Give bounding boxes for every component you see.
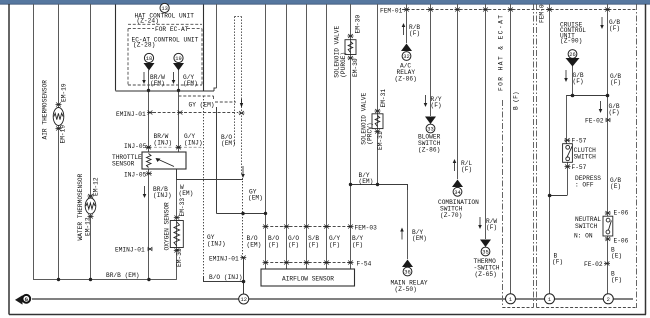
svg-text:18: 18 xyxy=(146,56,152,62)
svg-text:(F): (F) xyxy=(609,109,620,116)
svg-text:EM-12: EM-12 xyxy=(93,177,100,196)
svg-text:(Z-86): (Z-86) xyxy=(395,76,417,83)
svg-text:(Z-50): (Z-50) xyxy=(395,286,417,293)
svg-text:34: 34 xyxy=(454,190,460,196)
svg-text:AIR THERMOSENSOR: AIR THERMOSENSOR xyxy=(42,80,49,140)
svg-text:INJ-05: INJ-05 xyxy=(124,143,147,150)
svg-text:EMINJ-01: EMINJ-01 xyxy=(209,256,239,263)
svg-text:EM-31: EM-31 xyxy=(380,89,387,108)
svg-text:(EM): (EM) xyxy=(412,235,427,242)
svg-text:FE-02: FE-02 xyxy=(584,261,603,268)
svg-text:SENSOR: SENSOR xyxy=(112,161,135,168)
svg-text:(INJ): (INJ) xyxy=(184,140,203,147)
svg-text:FEM-0: FEM-0 xyxy=(539,4,546,23)
svg-text:EM-30: EM-30 xyxy=(352,58,359,77)
svg-text:33: 33 xyxy=(427,127,433,133)
svg-text:B/O (INJ): B/O (INJ) xyxy=(209,274,242,281)
svg-text:(E): (E) xyxy=(610,183,621,190)
svg-text:B (F): B (F) xyxy=(513,91,520,110)
svg-text:F-57: F-57 xyxy=(572,164,587,171)
svg-text:EMINJ-01: EMINJ-01 xyxy=(116,111,146,118)
svg-text:FEM-03: FEM-03 xyxy=(355,225,378,232)
svg-text:(INJ): (INJ) xyxy=(207,241,226,248)
svg-text:INJ-05: INJ-05 xyxy=(124,172,147,179)
svg-text:AIRFLOW SENSOR: AIRFLOW SENSOR xyxy=(282,275,334,282)
svg-text:F-57: F-57 xyxy=(572,137,587,144)
svg-text:N: ON: N: ON xyxy=(574,232,593,239)
svg-text:(F): (F) xyxy=(308,242,319,249)
svg-text:32: 32 xyxy=(403,54,409,60)
svg-text:(Z-70): (Z-70) xyxy=(440,212,462,219)
svg-text:FE-02: FE-02 xyxy=(585,118,604,125)
svg-text:(F): (F) xyxy=(552,259,563,266)
svg-text:(F): (F) xyxy=(609,25,620,32)
svg-text:(EM): (EM) xyxy=(179,190,194,197)
svg-text:(Z-65): (Z-65) xyxy=(475,271,497,278)
svg-text:(INJ): (INJ) xyxy=(154,140,173,147)
svg-text:EMINJ-01: EMINJ-01 xyxy=(115,247,145,254)
svg-text:(F): (F) xyxy=(288,242,299,249)
svg-text:(F): (F) xyxy=(611,277,622,284)
svg-text:FOR EC-AT: FOR EC-AT xyxy=(155,26,189,33)
svg-text:13: 13 xyxy=(161,6,167,12)
svg-text:1: 1 xyxy=(548,297,551,303)
svg-text:2: 2 xyxy=(607,297,610,303)
svg-text:(F): (F) xyxy=(486,224,497,231)
svg-text:(Z-28): (Z-28) xyxy=(133,42,155,49)
svg-text:EM-33: EM-33 xyxy=(179,198,186,217)
svg-text:EM-30: EM-30 xyxy=(355,15,362,34)
svg-text:12: 12 xyxy=(240,297,246,303)
svg-text:(F): (F) xyxy=(461,166,472,173)
svg-text:(EM): (EM) xyxy=(221,140,236,147)
svg-text:26: 26 xyxy=(569,52,575,58)
svg-text:SWITCH: SWITCH xyxy=(575,223,598,230)
svg-text:EM-12: EM-12 xyxy=(85,217,92,236)
svg-text:(F): (F) xyxy=(573,78,584,85)
svg-text:(PRCV): (PRCV) xyxy=(367,122,374,144)
svg-text:19: 19 xyxy=(175,56,181,62)
svg-text:(F): (F) xyxy=(409,30,420,37)
svg-text:(EM): (EM) xyxy=(247,242,262,249)
svg-text:(INJ): (INJ) xyxy=(153,192,172,199)
svg-text:E-06: E-06 xyxy=(614,238,629,245)
svg-text:(F): (F) xyxy=(610,79,621,86)
svg-text:EM-31: EM-31 xyxy=(377,131,384,150)
svg-text:(EM): (EM) xyxy=(248,195,263,202)
svg-text:OXYGEN SENSOR: OXYGEN SENSOR xyxy=(164,202,171,251)
svg-text:(EM): (EM) xyxy=(150,80,165,87)
svg-text:EM-19: EM-19 xyxy=(61,83,68,102)
svg-text:FOR HAT & EC-AT: FOR HAT & EC-AT xyxy=(498,15,505,91)
svg-text:(F): (F) xyxy=(352,242,363,249)
svg-text:(Z-24): (Z-24) xyxy=(137,18,159,25)
svg-text:(F): (F) xyxy=(431,102,442,109)
svg-text:(E): (E) xyxy=(611,253,622,260)
svg-text:E-06: E-06 xyxy=(614,210,629,217)
svg-text:(EM): (EM) xyxy=(183,80,198,87)
svg-text:(PURGE): (PURGE) xyxy=(340,52,347,78)
svg-text:(F): (F) xyxy=(268,242,279,249)
svg-text:(F): (F) xyxy=(329,242,340,249)
svg-text:: OFF: : OFF xyxy=(575,182,594,189)
svg-text:(Z-86): (Z-86) xyxy=(418,147,440,154)
svg-text:GY (EM): GY (EM) xyxy=(189,102,215,109)
svg-text:F-54: F-54 xyxy=(357,261,372,268)
svg-text:36: 36 xyxy=(404,270,410,276)
svg-text:(EM): (EM) xyxy=(359,178,374,185)
svg-text:1: 1 xyxy=(509,297,512,303)
svg-text:SWITCH: SWITCH xyxy=(574,153,597,160)
svg-text:35: 35 xyxy=(482,250,488,256)
svg-text:BR/B (EM): BR/B (EM) xyxy=(106,272,139,279)
svg-text:WATER THERMOSENSOR: WATER THERMOSENSOR xyxy=(77,173,84,240)
svg-text:(Z-90): (Z-90) xyxy=(560,38,582,45)
svg-text:FEM-01: FEM-01 xyxy=(380,8,403,15)
